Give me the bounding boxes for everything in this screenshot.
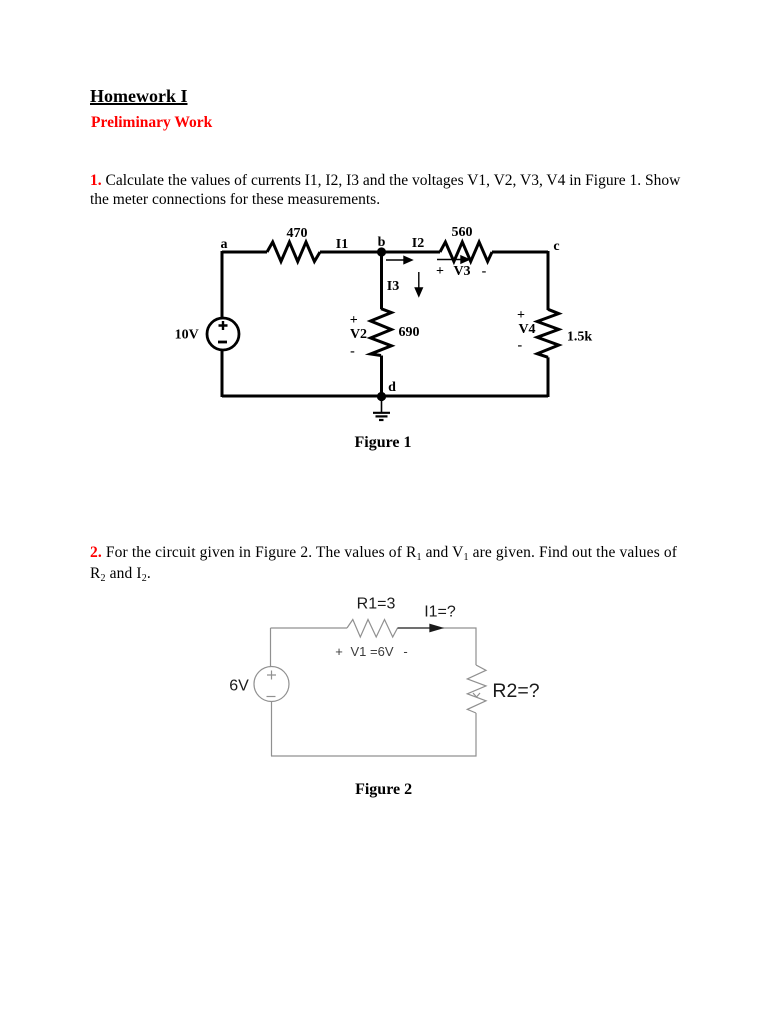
svg-text:+: + xyxy=(436,264,444,279)
svg-text:470: 470 xyxy=(287,226,308,241)
wire: source bottom to bottom wire xyxy=(221,350,224,397)
svg-text:a: a xyxy=(221,237,228,252)
current arrow I1 xyxy=(398,625,443,632)
resistor 470 xyxy=(267,242,320,262)
FIGURE 2 SVG xyxy=(210,590,570,805)
svg-text:+: + xyxy=(350,313,358,328)
svg-text:690: 690 xyxy=(399,325,420,340)
plus sign inside source xyxy=(218,321,228,342)
svg-text:R2=?: R2=? xyxy=(492,680,539,702)
svg-text:V4: V4 xyxy=(518,322,535,337)
minus inside 6V source xyxy=(267,696,276,698)
current arrow I3 down xyxy=(415,272,422,296)
wire: resistor 690 to node d xyxy=(380,356,383,397)
wire: node c down to resistor 1.5k xyxy=(547,251,550,310)
svg-text:1.5k: 1.5k xyxy=(567,330,593,345)
svg-text:-: - xyxy=(403,644,407,659)
svg-text:V2: V2 xyxy=(350,327,367,342)
wire R2 to bottom xyxy=(271,713,476,756)
svg-text:I1=?: I1=? xyxy=(424,604,456,621)
current arrow through 560 xyxy=(437,256,469,263)
node b junction dot xyxy=(377,247,386,256)
svg-text:-: - xyxy=(350,344,355,359)
svg-text:V3: V3 xyxy=(453,264,470,279)
svg-text:I2: I2 xyxy=(412,236,424,251)
svg-text:Figure 2: Figure 2 xyxy=(355,781,412,798)
svg-text:d: d xyxy=(388,380,396,395)
current arrow I2 at node b xyxy=(386,257,412,264)
plus inside 6V source xyxy=(267,671,276,680)
svg-text:V1 =6V: V1 =6V xyxy=(350,644,393,659)
wire: resistor 470 to node b xyxy=(320,251,382,254)
svg-text:-: - xyxy=(517,338,522,353)
resistor R2 xyxy=(467,665,486,713)
svg-text:I3: I3 xyxy=(387,279,399,294)
minus sign inside source xyxy=(218,341,227,344)
svg-text:I1: I1 xyxy=(336,237,348,252)
svg-text:10V: 10V xyxy=(175,328,199,343)
svg-text:R1=3: R1=3 xyxy=(357,596,396,613)
node d junction dot xyxy=(377,392,386,401)
wire top left xyxy=(271,627,348,629)
ground symbol xyxy=(373,401,390,420)
wire: resistor 1.5k to bottom right corner xyxy=(547,357,550,397)
wire: node b down to resistor 690 xyxy=(380,252,383,309)
resistor R1 xyxy=(347,620,398,638)
bottom wire xyxy=(222,395,548,398)
svg-text:+: + xyxy=(335,644,343,659)
wire top left: node a to resistor 470 xyxy=(222,251,267,254)
svg-text:Figure 1: Figure 1 xyxy=(354,434,411,451)
labels xyxy=(175,225,593,451)
wire: node a down to source top xyxy=(221,251,224,319)
wire after arrow to corner and down xyxy=(442,628,476,665)
resistor 560 xyxy=(440,242,492,262)
wire: node b to resistor 560 xyxy=(382,251,440,254)
svg-text:+: + xyxy=(517,308,525,323)
wire: resistor 560 to node c xyxy=(492,251,548,254)
wire source to bottom xyxy=(271,702,273,757)
svg-text:560: 560 xyxy=(452,225,473,240)
resistor 690 xyxy=(371,309,392,356)
resistor 1.5k xyxy=(537,309,559,357)
voltage source 10V circle xyxy=(207,318,239,350)
FIGURE 1 SVG xyxy=(160,220,620,460)
wire left: top down to source xyxy=(270,628,272,667)
svg-text:b: b xyxy=(378,235,386,250)
svg-text:c: c xyxy=(553,239,559,254)
voltage source 6V circle xyxy=(254,667,289,702)
svg-text:6V: 6V xyxy=(229,678,249,695)
small arrow inside R2 xyxy=(473,693,480,697)
svg-text:-: - xyxy=(482,264,487,279)
